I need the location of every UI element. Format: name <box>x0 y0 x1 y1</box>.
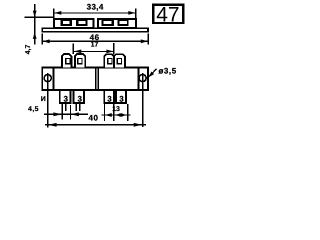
lug 3 hole <box>108 59 112 64</box>
slot 1 <box>61 20 72 26</box>
dim 46 left arrow <box>43 39 50 43</box>
dim 4,7 vertical line <box>34 4 36 45</box>
slot 2 <box>76 20 88 26</box>
front view: right ear seam <box>138 67 140 90</box>
top view: base bar outline <box>42 28 148 32</box>
slot 4 <box>118 20 129 26</box>
mini dim ext line a <box>103 104 105 121</box>
lug 2 <box>75 54 85 67</box>
front view: center seam left line <box>95 67 97 90</box>
lug 1 <box>62 54 71 67</box>
svg-text:ø3,5: ø3,5 <box>159 67 177 76</box>
diameter leader line <box>149 69 157 77</box>
svg-text:3: 3 <box>119 95 124 104</box>
dim 4,5 ext line 1 <box>61 105 63 120</box>
dim 4,5 right arrow <box>71 112 79 116</box>
dim 33,4 left arrow <box>54 11 61 15</box>
front view: left ear seam <box>53 67 55 90</box>
slot 3 <box>102 20 114 26</box>
front view: body outline <box>42 67 148 90</box>
svg-text:3: 3 <box>107 95 112 104</box>
dim 40 right arrow <box>134 123 143 127</box>
left mounting hole <box>44 75 51 82</box>
dim 4,7 down arrow <box>33 11 37 18</box>
pin 1 tip <box>61 104 63 111</box>
right hole centerline <box>142 73 144 127</box>
mini dim ext line b <box>113 104 115 121</box>
top view: right cover block <box>98 19 136 28</box>
pin 2 tip <box>75 104 77 111</box>
svg-text:47: 47 <box>156 4 179 27</box>
pin 1 <box>60 90 71 103</box>
dim 4,5 left arrow <box>53 112 62 116</box>
pin 3 <box>104 90 114 103</box>
dim 17 left tick <box>72 44 74 55</box>
svg-text:40: 40 <box>89 113 99 122</box>
dim 46 left tick <box>41 33 43 44</box>
dim 4,5 ext line 2 <box>70 105 72 119</box>
dim 33,4 right tick <box>135 8 137 18</box>
dim 46 line <box>43 40 149 42</box>
mini dim ext line c <box>127 104 129 121</box>
lug 4 <box>114 54 125 67</box>
dim 4,7 extension line (block top) <box>25 16 54 18</box>
mini dim arrow b <box>114 113 122 117</box>
svg-text:4,7: 4,7 <box>25 45 32 55</box>
dim 17 right arrow <box>106 50 113 54</box>
right mounting hole <box>139 75 146 82</box>
dim 17 line <box>73 50 115 52</box>
dim 17 right tick <box>113 43 115 55</box>
dim 33,4 right arrow <box>128 11 135 15</box>
dim 40 left arrow <box>48 123 57 127</box>
front view: center seam right line <box>97 67 99 90</box>
mini dim arrow a <box>105 113 112 117</box>
dim 40 line <box>45 124 146 126</box>
svg-text:33,4: 33,4 <box>87 2 104 11</box>
lug 2 hole <box>78 59 82 64</box>
lug 3 <box>104 54 114 67</box>
lug 1 hole <box>66 59 70 64</box>
top view: left cover block <box>54 19 94 28</box>
pin 4 <box>116 90 126 103</box>
dim 46 right tick <box>147 33 149 44</box>
diameter leader arrowhead <box>148 72 154 78</box>
svg-text:4,5: 4,5 <box>28 106 39 113</box>
svg-text:3: 3 <box>77 95 82 104</box>
dim 33,4 left tick <box>53 8 55 18</box>
svg-text:17: 17 <box>91 42 99 49</box>
svg-text:3: 3 <box>63 95 68 104</box>
dim 4,5 line <box>44 113 88 115</box>
dim 17 left arrow <box>74 50 82 54</box>
dim 46 right arrow <box>141 39 148 43</box>
svg-text:И: И <box>41 96 46 103</box>
figure number box 47 <box>153 5 183 23</box>
mini dim line right <box>101 114 130 116</box>
left hole centerline <box>47 73 49 128</box>
svg-text:13: 13 <box>112 106 120 113</box>
lug 4 hole <box>117 59 121 64</box>
dim 33,4 line <box>54 12 135 14</box>
pin 2 <box>73 90 84 103</box>
dim 4,7 up arrow <box>33 32 37 39</box>
mini dim arrow c <box>120 113 128 117</box>
